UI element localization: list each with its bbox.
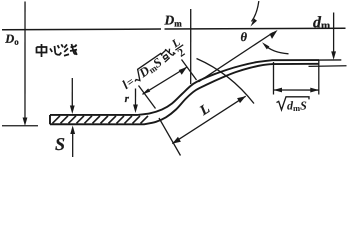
arrow: L upper-right <box>237 96 246 103</box>
label 中心线 (center line text, drawn strokes) <box>37 44 78 57</box>
l dimension line <box>142 67 187 94</box>
线 <box>64 44 77 56</box>
r leader arrow <box>134 88 136 105</box>
plate top line (big end to small end S-curve) <box>50 60 319 115</box>
wire: Do extension line <box>24 1 26 121</box>
plate bottom line <box>50 64 319 125</box>
L dimension line <box>172 96 245 143</box>
l dimension left extension line <box>138 85 155 108</box>
arrow: l lower-left <box>142 88 150 94</box>
L dimension left extension line <box>159 118 181 156</box>
中 <box>37 44 47 57</box>
或 glyph (drawn) <box>159 46 176 62</box>
dm extension line (outer surface extended) <box>319 59 341 61</box>
theta arc leader <box>265 45 289 54</box>
svg-text:θ: θ <box>241 30 248 44</box>
wire: big-end outer surface line (bottom left) <box>2 125 38 127</box>
sqrt(dmS) left extension line <box>272 62 274 95</box>
theta generatrix line with arrow <box>198 33 273 82</box>
arrow: l upper-right <box>179 67 187 75</box>
small pipe end cap + sqrt(dmS) right extension <box>318 60 320 94</box>
l dimension right extension line <box>181 60 196 81</box>
center line (axis, chain line) <box>2 28 346 30</box>
arrow: sqrt(dmS) left <box>273 88 282 93</box>
plate left end cap <box>49 115 51 124</box>
arrow: Do bottom arrowhead <box>23 117 28 126</box>
sqrt(dmS) dimension line <box>273 89 318 91</box>
S dimension upper arrow <box>71 78 73 106</box>
Dm extension line <box>190 9 192 84</box>
S dimension lower arrow <box>72 134 74 157</box>
arrow: sqrt(dmS) right <box>310 88 319 93</box>
dm dimension line <box>333 13 335 52</box>
arrow: L lower-left <box>172 137 181 144</box>
label sqrt(dmS) <box>276 97 309 113</box>
small pipe mean/reference line <box>309 65 347 68</box>
label l=sqrt(DmS) or L/2 (rotated along slope) <box>117 36 190 96</box>
心 <box>50 44 63 55</box>
theta top leader arrow (curved) <box>252 1 259 22</box>
svg-text:S: S <box>55 134 65 154</box>
hatching of plate section <box>52 116 148 124</box>
svg-text:r: r <box>125 93 130 105</box>
L dimension right extension line (curved) <box>196 59 254 104</box>
